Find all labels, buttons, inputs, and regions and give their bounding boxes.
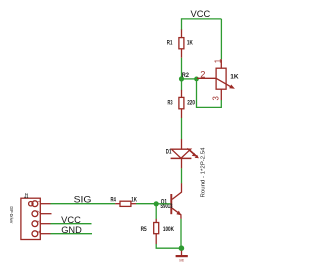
svg-text:1K: 1K [230, 74, 239, 81]
svg-text:D1: D1 [166, 148, 172, 155]
wire R4 to Q1 base junction [136, 203, 156, 205]
wire R5 bottom to ground node [156, 244, 181, 248]
wiper arrowhead of R2 [229, 85, 235, 89]
wire junction row [182, 78, 197, 80]
wire VCC rail [182, 18, 222, 20]
ground symbol GND [176, 251, 188, 257]
wire junction down to R5 [155, 204, 157, 219]
transistor Q1 [171, 183, 181, 219]
wire junction to R3 [181, 79, 183, 90]
wire R1 to junction node [181, 58, 183, 79]
wire VCC rail left drop to R1 [181, 18, 183, 30]
svg-text:3: 3 [37, 220, 43, 223]
svg-text:2: 2 [200, 70, 205, 80]
LED D1 [171, 139, 197, 168]
resistor R3 [179, 90, 184, 118]
svg-text:J1: J1 [24, 193, 29, 200]
emitter arrowhead (Q1) [176, 211, 181, 216]
wire Q1 emitter to ground node [180, 219, 182, 248]
svg-text:R4: R4 [111, 196, 117, 203]
svg-text:Round - 1*2P-2.54: Round - 1*2P-2.54 [201, 147, 207, 198]
svg-text:4: 4 [37, 230, 43, 233]
svg-text:1: 1 [214, 59, 223, 63]
connector J1 [21, 198, 52, 239]
wire R2 loop: pin3 back to junction [197, 79, 222, 108]
svg-text:1K: 1K [187, 39, 193, 46]
wire R3 to LED D1 [181, 118, 183, 139]
wire D1 to Q1 collector [181, 168, 183, 183]
svg-text:R3: R3 [168, 99, 173, 106]
wire GND stub [51, 233, 93, 235]
resistor R1 [179, 30, 184, 58]
svg-text:220: 220 [187, 99, 195, 106]
junction node at ground [179, 245, 185, 251]
wire base of Q1 to junction [156, 203, 170, 205]
svg-text:100K: 100K [163, 226, 174, 233]
junction node (right dot) [194, 77, 199, 82]
potentiometer R2 [197, 59, 231, 100]
svg-text:R5: R5 [141, 226, 148, 233]
junction node (left dot) [179, 76, 184, 81]
wire VCC stub [51, 223, 92, 225]
svg-text:R1: R1 [167, 39, 173, 46]
svg-text:1K: 1K [131, 196, 137, 203]
wire VCC rail right drop to R2 pin 1 [220, 19, 222, 59]
LED arrowhead 2 [195, 155, 199, 159]
junction node at Q1 base [154, 201, 159, 206]
resistor R4 [115, 201, 136, 206]
svg-text:GND: GND [61, 225, 82, 235]
wire SIG net [51, 203, 116, 205]
svg-text:VCC: VCC [191, 9, 211, 19]
svg-text:VCC: VCC [61, 215, 81, 225]
svg-text:SIG: SIG [74, 195, 92, 205]
svg-text:1: 1 [37, 200, 43, 203]
svg-text:DIP-Driver: DIP-Driver [9, 207, 14, 225]
svg-text:R2: R2 [182, 72, 189, 79]
svg-text:3: 3 [212, 96, 221, 100]
svg-text:GND: GND [179, 258, 184, 262]
svg-text:2: 2 [37, 210, 43, 213]
resistor R5 [154, 219, 159, 244]
LED arrowhead 1 [192, 153, 196, 157]
